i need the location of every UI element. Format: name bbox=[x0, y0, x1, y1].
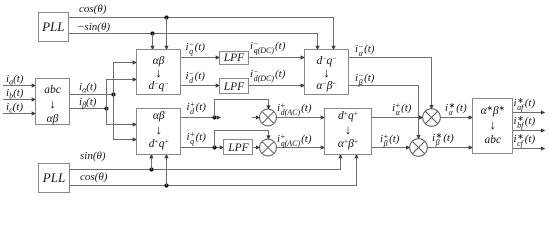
wire i_d+ bypass over to d+ multiplier top bbox=[215, 100, 269, 118]
block alpha-beta to d-q- transform bbox=[137, 50, 181, 95]
label alpha-beta to d+q+ block text bbox=[137, 110, 182, 152]
wire into d+ multiplier left bbox=[252, 117, 260, 119]
multiplier d+ channel bbox=[260, 109, 277, 126]
wire i_d-(t) into LPF bbox=[181, 85, 220, 87]
label i_q(AC)+(t) bbox=[277, 134, 312, 148]
multiplier beta channel bbox=[410, 139, 428, 157]
label i_q+(t) bbox=[187, 132, 206, 146]
wire input i_b(t) bbox=[3, 99, 36, 101]
node i_beta junction bbox=[105, 107, 109, 111]
wire sin branch up into alpha-beta to d+q+ block bbox=[151, 155, 153, 170]
label i_beta-(t) bbox=[355, 73, 374, 87]
label alpha*beta* to abc block text bbox=[473, 104, 513, 147]
label alpha-beta to d-q- block text bbox=[136, 55, 181, 92]
label i_alpha-(t) bbox=[355, 44, 374, 58]
wire i_beta(t) from abc block bbox=[70, 108, 107, 110]
label i_q(DC)-(t) bbox=[250, 41, 285, 55]
block alpha-beta to d+q+ transform bbox=[137, 109, 181, 155]
wire cos branch down into alpha-beta to d-q- block bbox=[166, 18, 168, 50]
label cos(theta) top bbox=[79, 4, 106, 16]
label d+q+ to alpha+beta+ block text bbox=[324, 110, 372, 152]
label i_d(AC)+(t) bbox=[277, 103, 312, 117]
block LPF d- channel bbox=[220, 79, 249, 94]
block PLL top bbox=[39, 13, 69, 42]
wire output i_cf*(t) bbox=[513, 148, 542, 150]
node i_alpha junction bbox=[112, 93, 116, 97]
wire output i_af*(t) bbox=[513, 112, 542, 114]
label i_alpha*(t) bbox=[445, 103, 467, 117]
label i_cf*(t) bbox=[514, 134, 536, 148]
wire i_alpha-(t) over to alpha multiplier bbox=[349, 58, 432, 109]
wire -sin branch down into alpha-beta to d-q- block bbox=[152, 34, 154, 50]
block alpha*beta* to abc inverse transform bbox=[473, 99, 513, 154]
wire cos branch up into alpha-beta to d+q+ block bbox=[166, 155, 168, 186]
wire i_q(DC)-(t) from LPF to d-q- inverse block bbox=[249, 57, 305, 59]
label i_af*(t) bbox=[514, 98, 536, 112]
wire i_d(AC)+(t) into d+q+ inverse block bbox=[276, 117, 324, 119]
wire i_q+ bypass over LPF to q+ multiplier top bbox=[215, 131, 269, 148]
wire i_alpha riser feeding both dq transform blocks bbox=[114, 63, 137, 140]
multiplier q+ channel bbox=[260, 139, 277, 156]
label LPF q- bbox=[219, 52, 249, 64]
wire cos(theta) from top PLL to d-q- inverse block bbox=[69, 18, 334, 50]
block abc to alpha-beta transform bbox=[36, 79, 70, 125]
block d+q+ to alpha+beta+ inverse transform bbox=[325, 109, 372, 155]
label i_c(t) bbox=[6, 102, 23, 114]
label LPF q+ bbox=[224, 142, 253, 154]
node i_d+ junction bbox=[213, 116, 217, 120]
label PLL bottom bbox=[38, 171, 70, 185]
block LPF q- channel bbox=[220, 52, 249, 65]
wire i_q(AC)+(t) into d+q+ inverse block bbox=[276, 147, 324, 149]
block PLL bottom bbox=[39, 164, 70, 193]
wire sin(theta) from bottom PLL to d+q+ inverse block bbox=[70, 155, 341, 170]
wire i_beta-(t) over to beta multiplier bbox=[349, 86, 419, 139]
wire i_beta+(t) into beta multiplier bbox=[372, 147, 410, 149]
wire -sin(theta) from top PLL to d-q- inverse block bbox=[69, 34, 318, 50]
label i_d-(t) bbox=[186, 71, 205, 85]
label abc block text bbox=[36, 83, 70, 126]
wire i_alpha(t) from abc block bbox=[70, 94, 114, 96]
label i_alpha+(t) bbox=[392, 103, 411, 117]
wire i_beta riser feeding both dq transform blocks bbox=[107, 80, 137, 125]
label cos(theta) bottom bbox=[80, 172, 107, 184]
label i_d(DC)-(t) bbox=[250, 69, 285, 83]
wire LPF output into q+ multiplier left bbox=[253, 147, 260, 149]
label d-q- to alpha-beta- block text bbox=[304, 55, 349, 92]
node -sin branch junction bbox=[151, 32, 155, 36]
wire output i_bf*(t) bbox=[513, 130, 542, 132]
label PLL top bbox=[38, 20, 69, 34]
label sin(theta) bottom bbox=[80, 151, 106, 163]
node i_q+ junction bbox=[213, 146, 217, 150]
wire i_q+(t) into LPF bbox=[181, 147, 224, 149]
label LPF d- bbox=[219, 81, 249, 93]
node cos branch junction bbox=[165, 16, 169, 20]
label i_beta*(t) bbox=[432, 133, 454, 147]
label i_bf*(t) bbox=[514, 116, 536, 130]
wire i_alpha+(t) into alpha multiplier bbox=[372, 117, 423, 119]
label i_beta(t) bbox=[79, 97, 96, 109]
label i_b(t) bbox=[6, 88, 23, 100]
label i_beta+(t) bbox=[380, 134, 399, 148]
wire input i_c(t) bbox=[3, 113, 36, 115]
wire i_d(DC)-(t) from LPF to d-q- inverse block bbox=[249, 85, 305, 87]
label i_a(t) bbox=[6, 74, 23, 86]
node cos branch junction bottom bbox=[165, 184, 169, 188]
wire cos(theta) from bottom PLL to d+q+ inverse block bbox=[70, 155, 357, 186]
block LPF q+ channel bbox=[224, 140, 253, 155]
wire i_alpha*(t) into alpha-beta* to abc block bbox=[440, 117, 472, 119]
wire i_beta*(t) into alpha-beta* to abc block bbox=[427, 147, 472, 149]
wire input i_a(t) bbox=[3, 85, 36, 87]
multiplier alpha channel bbox=[423, 109, 441, 127]
wire i_d+(t) from alpha-beta to d+q+ block bbox=[181, 117, 216, 119]
label i_alpha(t) bbox=[79, 82, 97, 94]
label i_q-(t) bbox=[186, 42, 205, 56]
node sin branch junction bbox=[150, 168, 154, 172]
wire i_q-(t) into LPF bbox=[181, 57, 220, 59]
block d-q- to alpha-beta- inverse transform bbox=[305, 50, 349, 95]
label i_d+(t) bbox=[187, 102, 206, 116]
label -sin(theta) top bbox=[77, 22, 110, 34]
